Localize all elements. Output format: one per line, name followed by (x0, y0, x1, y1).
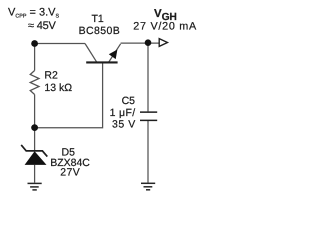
wire output node down to capacitor (147, 43, 149, 112)
wire left rail resistor to zener (34, 95, 36, 151)
svg-text:C5: C5 (122, 95, 136, 107)
svg-text:13 kΩ: 13 kΩ (44, 82, 72, 94)
wire left rail from node down to resistor (34, 44, 36, 71)
node between R2 and D5 junction dot (31, 124, 38, 131)
transistor T1 base bar (86, 61, 117, 63)
wire base lead down and left to node (37, 63, 103, 127)
svg-text:T1: T1 (92, 13, 104, 25)
capacitor C5 plates (140, 112, 157, 120)
wire collector diagonal (85, 44, 97, 62)
svg-text:35 V: 35 V (112, 119, 136, 131)
node VCPP junction dot (31, 40, 38, 47)
output terminal open arrow (159, 39, 167, 47)
svg-text:27V: 27V (60, 166, 80, 178)
svg-text:BC850B: BC850B (79, 25, 121, 37)
svg-text:R2: R2 (44, 69, 58, 81)
svg-text:1 μF/: 1 μF/ (110, 107, 136, 119)
wire emitter diagonal (109, 44, 121, 62)
resistor R2 zigzag (30, 71, 39, 95)
svg-text:VCPP = 3.VS: VCPP = 3.VS (8, 7, 59, 20)
wire capacitor to right ground (147, 121, 149, 183)
svg-text:≈ 45V: ≈ 45V (28, 20, 57, 32)
node VGH output junction dot (145, 39, 152, 46)
wire emitter horizontal to output (121, 42, 159, 44)
wire top rail from VCPP node to transistor collector (35, 43, 85, 45)
zener D5 cathode bar with hooks (21, 145, 47, 157)
zener D5 anode triangle (25, 151, 47, 165)
wire zener anode to ground (34, 165, 36, 183)
ground symbol left (28, 183, 42, 190)
svg-text:27 V/20 mA: 27 V/20 mA (133, 20, 197, 32)
transistor T1 emitter arrowhead (109, 50, 118, 60)
ground symbol right (141, 183, 155, 190)
